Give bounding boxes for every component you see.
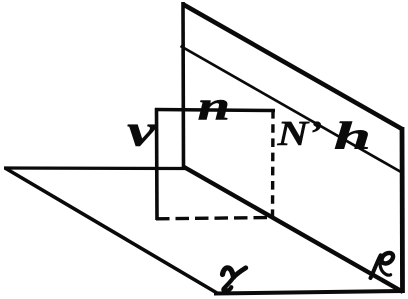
plane gamma left diagonal edge (5, 168, 217, 293)
line h in plane beta (181, 46, 402, 172)
label h (334, 113, 371, 157)
svg-text:h: h (334, 113, 371, 157)
rectangle right dashed edge (271, 110, 275, 217)
label N' (276, 114, 322, 153)
svg-text:n: n (197, 83, 230, 128)
label n (197, 83, 230, 128)
line n (rectangle top edge) (155, 110, 275, 111)
line v (rectangle left edge) (155, 108, 159, 220)
plane gamma bottom edge (214, 291, 404, 294)
svg-text:v: v (127, 105, 157, 155)
plane beta top edge (183, 4, 403, 129)
label v (127, 105, 157, 155)
label beta (371, 251, 396, 278)
svg-text:N’: N’ (276, 114, 322, 153)
plane gamma top edge (4, 166, 186, 170)
plane beta left edge (181, 2, 185, 168)
rectangle bottom dashed edge (156, 218, 271, 219)
plane beta right edge (400, 127, 405, 293)
label gamma (223, 268, 246, 291)
intersection edge of beta and gamma (184, 167, 403, 292)
